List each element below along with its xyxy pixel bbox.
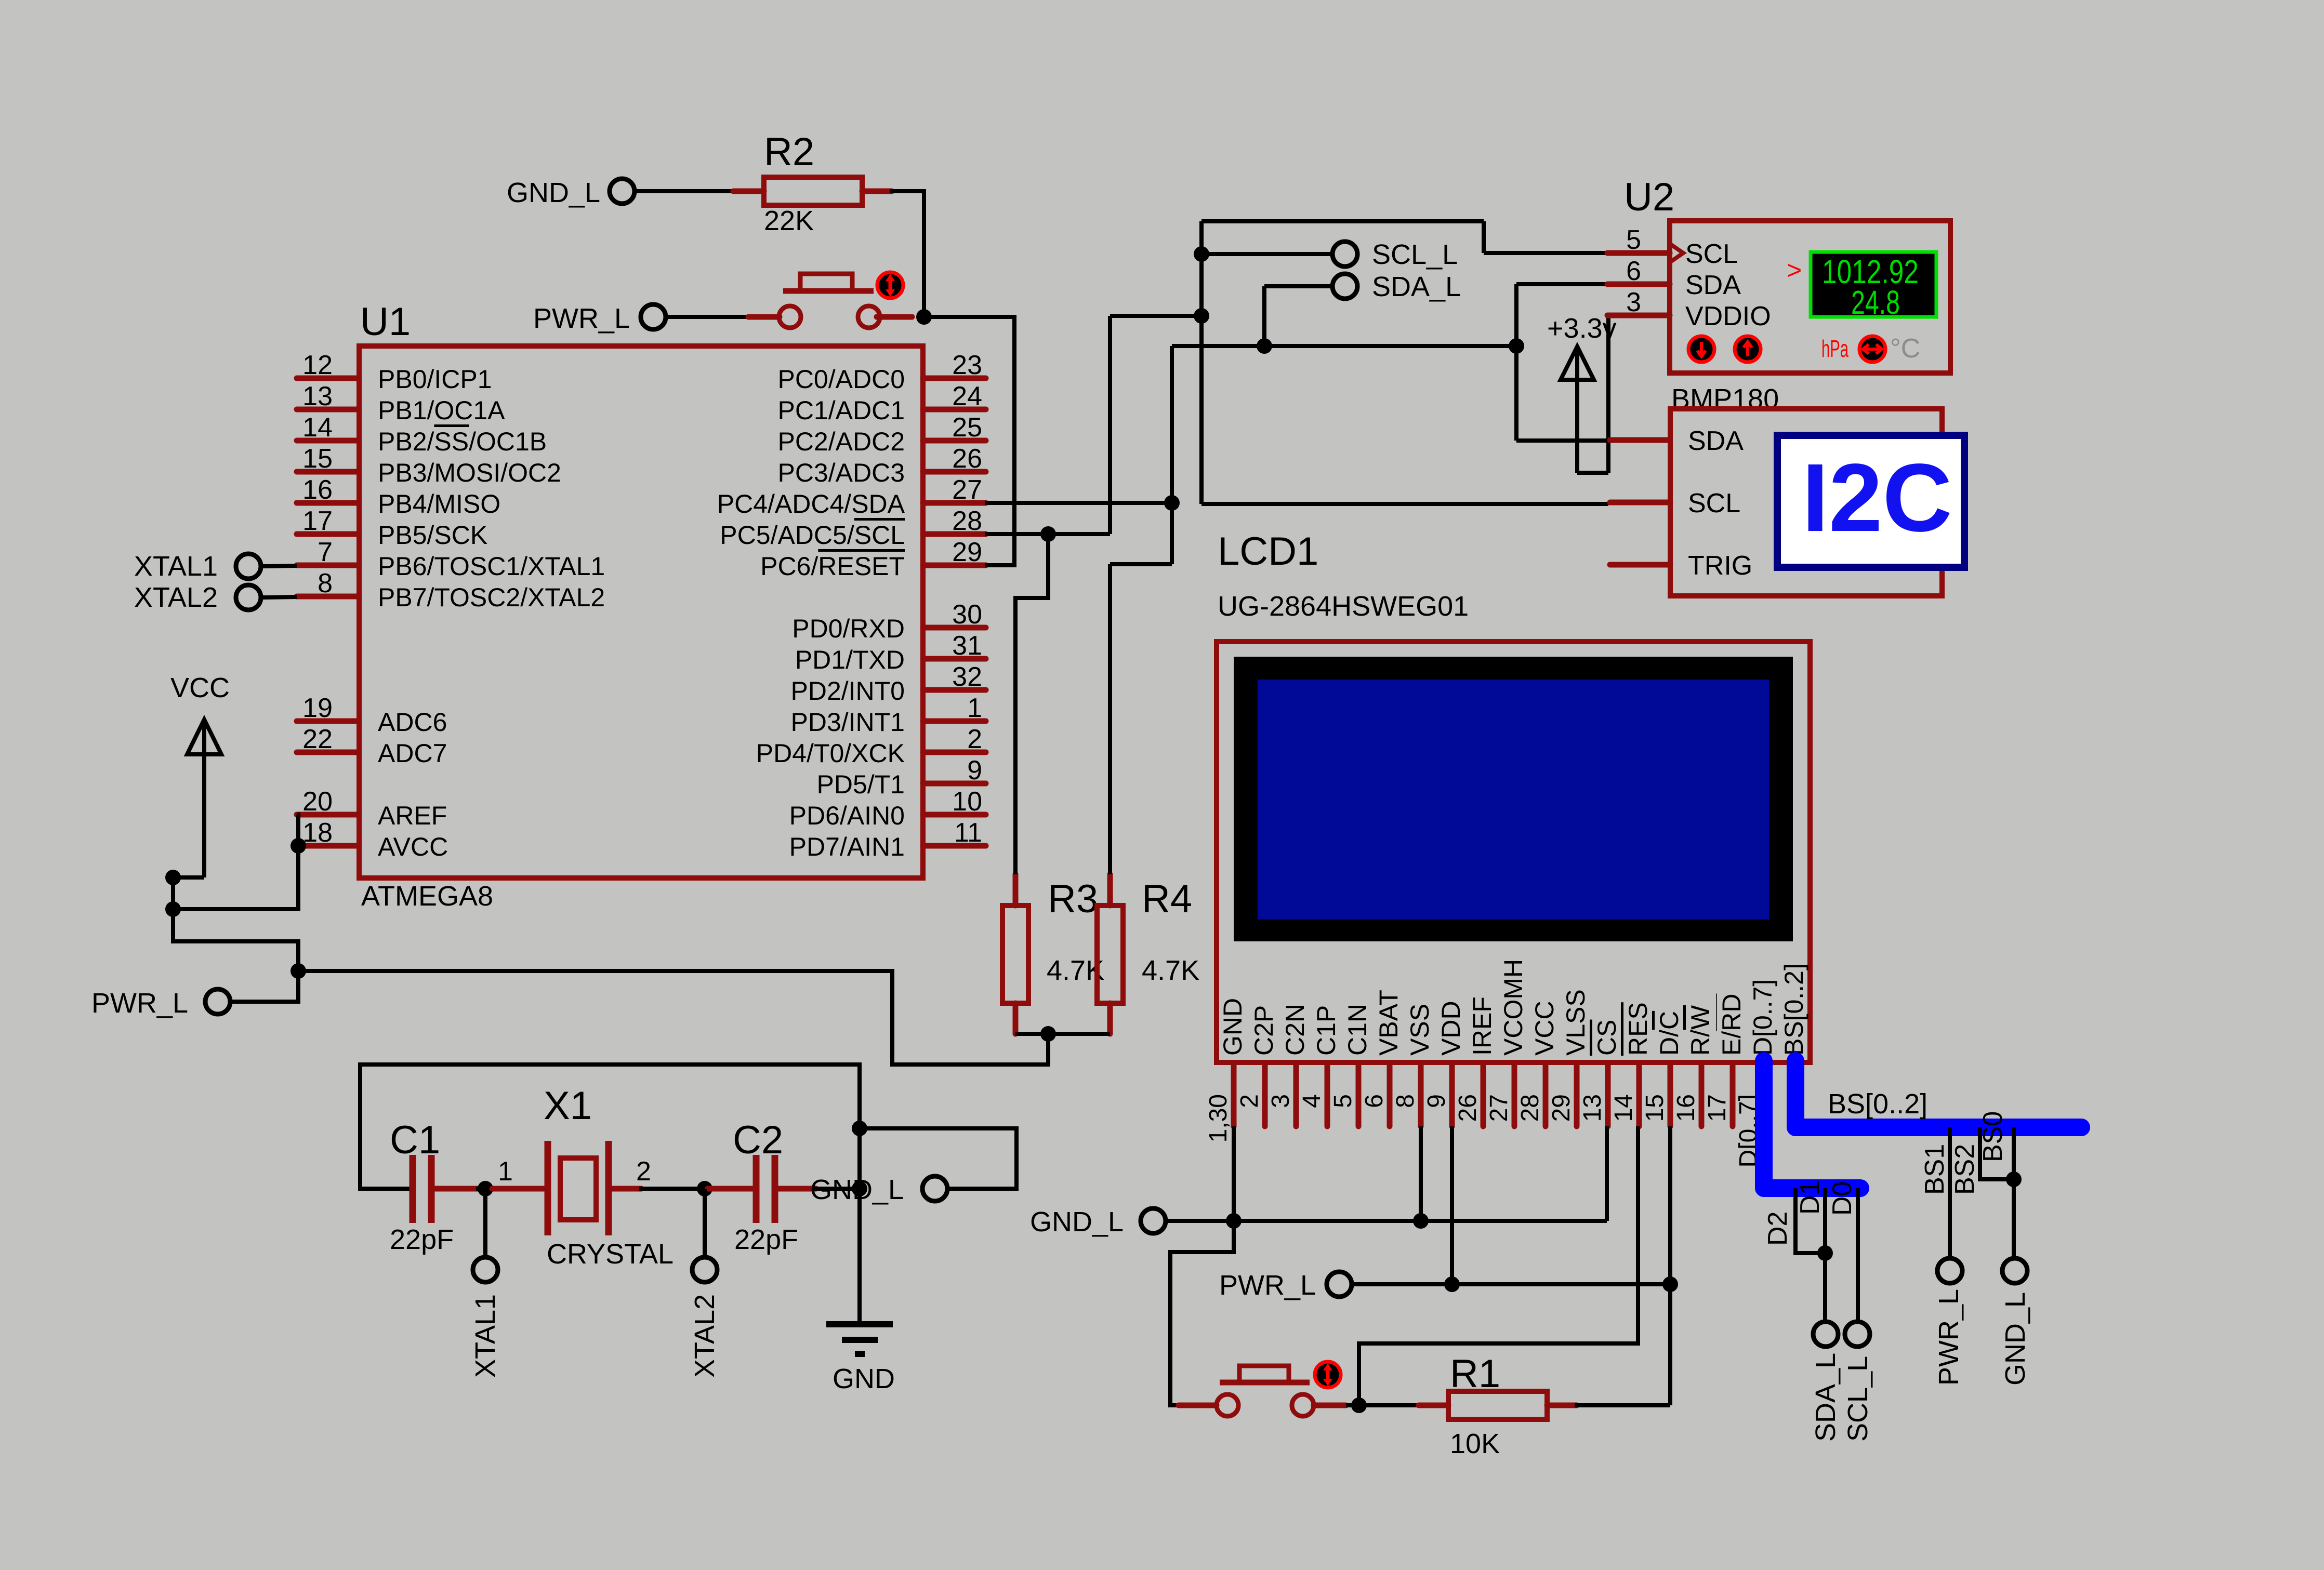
svg-text:2: 2: [967, 724, 982, 754]
svg-text:PB6/TOSC1/XTAL1: PB6/TOSC1/XTAL1: [378, 552, 605, 581]
wire to AREF/AVCC: [173, 815, 298, 909]
LCD1 screen: [1258, 680, 1769, 920]
LCD1 pin 9 stub: [1449, 1064, 1455, 1126]
wire C1 gnd loop: [360, 1065, 860, 1189]
U2 pin 5 stub: [1607, 250, 1670, 256]
terminal SCL_L bottom: [1845, 1322, 1870, 1347]
wire XTAL1 to pin7: [262, 566, 297, 566]
terminal GND_L bottom: [2002, 1258, 2027, 1283]
U1 pin 31 stub: [923, 656, 986, 662]
svg-text:I2C: I2C: [1802, 444, 1952, 552]
svg-text:GND_L: GND_L: [1030, 1206, 1124, 1238]
wire down ladder: [173, 877, 298, 971]
svg-text:PB2/SS/OC1B: PB2/SS/OC1B: [378, 427, 547, 456]
U2 button unit toggle: [1859, 336, 1885, 362]
wire D1 tap: [1823, 1188, 1827, 1321]
U1 pin 29 stub: [923, 563, 986, 568]
svg-text:6: 6: [1361, 1094, 1388, 1108]
svg-text:XTAL2: XTAL2: [689, 1294, 720, 1378]
svg-text:PC2/ADC2: PC2/ADC2: [777, 427, 905, 456]
LCD1 pin 28 stub: [1543, 1064, 1549, 1126]
svg-text:°C: °C: [1890, 334, 1920, 364]
wire XTAL2 drop: [703, 1189, 707, 1257]
svg-text:PB7/TOSC2/XTAL2: PB7/TOSC2/XTAL2: [378, 583, 605, 612]
svg-text:3: 3: [1267, 1094, 1295, 1108]
LCD1 pin 8 stub: [1418, 1064, 1424, 1126]
svg-text:PD1/TXD: PD1/TXD: [795, 645, 905, 674]
junction XTAL2 node: [697, 1181, 712, 1196]
svg-text:AREF: AREF: [378, 801, 447, 830]
svg-text:4.7K: 4.7K: [1142, 955, 1199, 986]
resistor R1: [1419, 1403, 1448, 1408]
svg-text:1: 1: [498, 1156, 513, 1187]
wire BS0 tap: [2012, 1127, 2016, 1258]
sensor interface box: [1670, 409, 1942, 596]
svg-text:PWR_L: PWR_L: [533, 303, 630, 334]
svg-text:28: 28: [1516, 1094, 1544, 1122]
U1 pin 16 stub: [297, 500, 359, 506]
svg-text:PD4/T0/XCK: PD4/T0/XCK: [756, 739, 905, 768]
wire VCC corner: [173, 875, 204, 880]
U1 pin 17 stub: [297, 531, 359, 537]
svg-text:VCC: VCC: [1530, 1001, 1559, 1056]
svg-text:R/W: R/W: [1686, 1005, 1715, 1056]
svg-text:D[0..7]: D[0..7]: [1748, 979, 1777, 1056]
wire X1 to C2: [639, 1187, 707, 1191]
resistor R4: [1107, 874, 1113, 906]
U2 pin 3 stub: [1607, 313, 1670, 318]
svg-text:12: 12: [302, 350, 333, 380]
wire PWR rail to R3/R4: [298, 971, 1048, 1065]
svg-text:17: 17: [1704, 1094, 1731, 1122]
svg-text:15: 15: [302, 444, 333, 474]
U1 pin 9 stub: [923, 781, 986, 787]
svg-text:29: 29: [1548, 1094, 1575, 1122]
svg-text:GND_L: GND_L: [507, 177, 600, 208]
LCD1 pin 14 stub: [1636, 1064, 1642, 1126]
svg-text:5: 5: [1329, 1094, 1357, 1108]
svg-text:22K: 22K: [764, 205, 814, 236]
svg-text:22pF: 22pF: [390, 1224, 454, 1255]
U1 pin 24 stub: [923, 407, 986, 413]
svg-text:LCD1: LCD1: [1218, 529, 1318, 574]
svg-text:PD7/AIN1: PD7/AIN1: [789, 832, 905, 861]
svg-text:25: 25: [952, 413, 982, 443]
svg-text:4: 4: [1298, 1094, 1326, 1108]
svg-text:hPa: hPa: [1821, 335, 1848, 362]
svg-text:2: 2: [636, 1156, 651, 1187]
wire LCD power net: [1352, 1126, 1670, 1405]
U1 pin 15 stub: [297, 469, 359, 475]
svg-text:VCC: VCC: [170, 672, 230, 703]
U1 pin 11 stub: [923, 843, 986, 849]
svg-text:1: 1: [967, 693, 982, 723]
push button SW2: [1179, 1403, 1217, 1408]
wire R3 R4 bottom: [1015, 1032, 1110, 1036]
svg-text:BS[0..2]: BS[0..2]: [1779, 963, 1808, 1056]
U1 pin 27 stub: [923, 500, 986, 506]
svg-text:D/C: D/C: [1655, 1011, 1684, 1056]
svg-text:SDA: SDA: [1685, 270, 1741, 300]
LCD1 pin 17 stub: [1730, 1064, 1736, 1126]
terminal PWR_L left: [205, 989, 230, 1014]
svg-text:28: 28: [952, 506, 982, 536]
svg-text:PD5/T1: PD5/T1: [816, 770, 905, 799]
svg-text:PWR_L: PWR_L: [1219, 1270, 1316, 1301]
svg-text:17: 17: [302, 506, 333, 536]
svg-text:PB4/MISO: PB4/MISO: [378, 489, 500, 518]
U1 pin 23 stub: [923, 376, 986, 381]
svg-text:PC0/ADC0: PC0/ADC0: [777, 365, 905, 394]
wire VDDIO riser: [1606, 315, 1610, 473]
junction PWR ladder: [290, 963, 306, 979]
svg-text:16: 16: [302, 475, 333, 505]
bus D[0..7]: [1764, 1061, 1860, 1188]
svg-text:7: 7: [318, 537, 333, 567]
ground symbol GND: [826, 1321, 893, 1327]
svg-text:D1: D1: [1795, 1180, 1825, 1215]
crystal X1: [545, 1141, 551, 1235]
svg-text:9: 9: [1423, 1094, 1450, 1108]
svg-text:C1P: C1P: [1312, 1005, 1341, 1056]
svg-text:27: 27: [1485, 1094, 1513, 1122]
svg-text:PC6/RESET: PC6/RESET: [760, 552, 905, 581]
svg-text:SCL: SCL: [1685, 239, 1738, 269]
svg-text:X1: X1: [544, 1084, 592, 1128]
svg-text:VDD: VDD: [1436, 1001, 1465, 1056]
svg-text:16: 16: [1672, 1094, 1700, 1122]
SW1 actuator icon: [877, 272, 903, 298]
wire RES to R1: [1359, 1126, 1638, 1405]
svg-text:ADC6: ADC6: [378, 708, 447, 737]
terminal XTAL1: [236, 554, 261, 579]
U1 pin 2 stub: [923, 750, 986, 755]
junction SW2/R1: [1351, 1398, 1367, 1413]
svg-text:13: 13: [302, 381, 333, 411]
svg-text:SDA_L: SDA_L: [1372, 271, 1461, 302]
svg-text:C1N: C1N: [1343, 1004, 1372, 1056]
svg-text:PC5/ADC5/SCL: PC5/ADC5/SCL: [720, 521, 905, 550]
LCD1 pin 15 stub: [1668, 1064, 1673, 1126]
U1 pin 28 stub: [923, 531, 986, 537]
LCD1 pin 2 stub: [1262, 1064, 1268, 1126]
terminal XTAL2: [236, 585, 261, 610]
interface pin SCL stub: [1610, 500, 1670, 505]
terminal PWR_L top: [641, 304, 666, 329]
svg-text:TRIG: TRIG: [1688, 551, 1752, 581]
svg-text:BS1: BS1: [1920, 1144, 1950, 1195]
wire R2 to button junction: [890, 191, 924, 317]
LCD1 pin 6 stub: [1387, 1064, 1393, 1126]
microcontroller U1 body: [359, 346, 923, 878]
svg-text:19: 19: [302, 693, 333, 723]
svg-text:10: 10: [952, 787, 982, 817]
wire to PWR_L: [231, 971, 298, 1002]
capacitor C2: [753, 1155, 760, 1223]
wire XTAL1 drop: [483, 1189, 487, 1257]
U1 pin 7 stub: [297, 563, 359, 568]
wire BS2 tap: [1980, 1127, 2014, 1179]
U1 pin 30 stub: [923, 625, 986, 631]
svg-text:VLSS: VLSS: [1561, 989, 1590, 1056]
wire R3 top: [1015, 534, 1048, 874]
U1 pin 10 stub: [923, 812, 986, 818]
svg-text:PD0/RXD: PD0/RXD: [792, 614, 905, 643]
svg-text:ATMEGA8: ATMEGA8: [361, 881, 493, 912]
svg-text:>: >: [1787, 256, 1802, 285]
svg-text:10K: 10K: [1450, 1428, 1500, 1459]
svg-text:R4: R4: [1142, 877, 1192, 921]
terminal GND_L top: [610, 179, 635, 204]
svg-text:PB3/MOSI/OC2: PB3/MOSI/OC2: [378, 458, 561, 487]
wire BS1 tap: [1948, 1127, 1952, 1258]
svg-text:PC3/ADC3: PC3/ADC3: [777, 458, 905, 487]
terminal GND_L middle: [922, 1176, 947, 1201]
svg-text:XTAL1: XTAL1: [470, 1294, 501, 1378]
U1 pin 19 stub: [297, 719, 359, 724]
svg-text:8: 8: [318, 568, 333, 598]
interface pin SDA stub: [1610, 437, 1670, 443]
svg-text:C2N: C2N: [1280, 1004, 1310, 1056]
wire C1 to X1: [476, 1187, 540, 1191]
resistor R3: [1013, 874, 1019, 906]
svg-text:GND_L: GND_L: [2000, 1292, 2031, 1386]
wire GND_L to R2: [635, 189, 735, 193]
svg-text:VDDIO: VDDIO: [1685, 301, 1771, 331]
display LCD1 body: [1217, 642, 1810, 1062]
svg-text:24: 24: [952, 381, 982, 411]
svg-text:R2: R2: [764, 130, 814, 174]
LCD1 pin 5 stub: [1356, 1064, 1362, 1126]
svg-text:PC4/ADC4/SDA: PC4/ADC4/SDA: [717, 489, 905, 518]
svg-text:XTAL2: XTAL2: [134, 582, 218, 613]
svg-text:15: 15: [1641, 1094, 1669, 1122]
SW2 actuator icon: [1315, 1362, 1341, 1388]
svg-text:PD6/AIN0: PD6/AIN0: [789, 801, 905, 830]
svg-text:BS0: BS0: [1978, 1111, 2008, 1162]
U1 pin 1 stub: [923, 719, 986, 724]
U1 pin 14 stub: [297, 438, 359, 444]
svg-text:PB0/ICP1: PB0/ICP1: [378, 365, 492, 394]
svg-text:30: 30: [952, 600, 982, 630]
capacitor C1: [410, 1155, 416, 1223]
wire LCD ground net: [1166, 1126, 1607, 1221]
terminal PWR_L bottom: [1937, 1258, 1962, 1283]
svg-text:14: 14: [1610, 1094, 1638, 1122]
terminal SDA_L: [1332, 274, 1357, 299]
wire C2 to GND line: [814, 1187, 860, 1191]
svg-text:3: 3: [1626, 287, 1641, 317]
terminal SCL_L: [1332, 242, 1357, 267]
U2 button up: [1735, 336, 1761, 362]
svg-text:14: 14: [302, 413, 333, 443]
svg-text:SCL_L: SCL_L: [1372, 239, 1458, 270]
svg-text:24.8: 24.8: [1851, 284, 1900, 321]
svg-text:ADC7: ADC7: [378, 739, 447, 768]
bus BS[0..2]: [1795, 1061, 2081, 1127]
svg-text:11: 11: [954, 818, 982, 848]
svg-text:U2: U2: [1624, 175, 1674, 219]
svg-text:32: 32: [952, 662, 982, 692]
LCD1 screen bezel: [1234, 657, 1793, 941]
LCD1 pin 26 stub: [1481, 1064, 1486, 1126]
svg-text:23: 23: [952, 350, 982, 380]
svg-text:BS2: BS2: [1950, 1144, 1980, 1195]
svg-text:13: 13: [1579, 1094, 1606, 1122]
svg-text:GND: GND: [1218, 998, 1247, 1056]
svg-text:SCL: SCL: [1688, 488, 1740, 518]
svg-text:PD2/INT0: PD2/INT0: [790, 676, 905, 706]
svg-text:GND: GND: [833, 1363, 895, 1394]
LCD1 pin 1,30 stub: [1231, 1064, 1237, 1126]
wire button to PC6/RESET: [924, 317, 1014, 565]
svg-text:SCL_L: SCL_L: [1842, 1356, 1873, 1442]
svg-text:RES: RES: [1623, 1002, 1653, 1056]
junction SW1/R2: [916, 309, 932, 325]
wire SCL net: [985, 221, 1608, 534]
svg-text:PWR_L: PWR_L: [1933, 1289, 1964, 1386]
svg-text:U1: U1: [360, 300, 411, 344]
svg-text:PB1/OC1A: PB1/OC1A: [378, 396, 505, 425]
LCD1 pin 4 stub: [1325, 1064, 1330, 1126]
wire XTAL2 to pin8: [262, 597, 297, 597]
svg-text:E/RD: E/RD: [1717, 994, 1746, 1056]
svg-text:2: 2: [1236, 1094, 1263, 1108]
svg-text:PB5/SCK: PB5/SCK: [378, 521, 487, 550]
wire R1 right: [1575, 1403, 1670, 1407]
wire gnd to SW2: [1170, 1221, 1234, 1405]
U1 pin 8 stub: [297, 594, 359, 600]
svg-text:27: 27: [952, 475, 982, 505]
U1 pin 32 stub: [923, 687, 986, 693]
U1 pin 12 stub: [297, 376, 359, 381]
U2 pin 6 stub: [1607, 282, 1670, 287]
LCD1 pin 3 stub: [1293, 1064, 1299, 1126]
terminal SDA_L bottom: [1813, 1322, 1838, 1347]
svg-text:20: 20: [302, 787, 333, 817]
interface pin TRIG stub: [1610, 562, 1670, 568]
U1 pin 22 stub: [297, 750, 359, 755]
U1 pin 18 stub: [297, 843, 359, 849]
svg-text:PD3/INT1: PD3/INT1: [790, 708, 905, 737]
svg-text:PC1/ADC1: PC1/ADC1: [777, 396, 905, 425]
svg-text:CS: CS: [1592, 1020, 1621, 1056]
svg-text:VCOMH: VCOMH: [1499, 959, 1528, 1056]
svg-text:6: 6: [1626, 256, 1641, 286]
svg-text:BS[0..2]: BS[0..2]: [1828, 1088, 1927, 1120]
svg-text:XTAL1: XTAL1: [134, 551, 218, 582]
LCD1 pin 27 stub: [1512, 1064, 1517, 1126]
U2 SCL input arrow: [1670, 244, 1683, 262]
U1 pin 26 stub: [923, 469, 986, 475]
wire SDA net: [985, 284, 1610, 874]
push button SW1: [748, 314, 780, 320]
svg-text:C2: C2: [733, 1118, 783, 1162]
svg-text:C1: C1: [390, 1118, 440, 1162]
svg-text:IREF: IREF: [1468, 996, 1497, 1056]
svg-text:R3: R3: [1048, 877, 1098, 921]
svg-text:1,30: 1,30: [1205, 1094, 1232, 1142]
junction XTAL1 node: [478, 1181, 493, 1196]
LCD1 pin 29 stub: [1574, 1064, 1580, 1126]
svg-text:29: 29: [952, 537, 982, 567]
svg-text:31: 31: [952, 631, 982, 661]
svg-text:SDA_L: SDA_L: [1810, 1353, 1841, 1442]
svg-text:5: 5: [1626, 225, 1641, 255]
svg-text:VBAT: VBAT: [1374, 990, 1403, 1056]
terminal GND_L (LCD): [1141, 1208, 1166, 1233]
svg-text:9: 9: [967, 755, 982, 786]
terminal PWR_L (LCD): [1327, 1272, 1352, 1297]
U1 pin 25 stub: [923, 438, 986, 444]
wire SW2 to R1: [1346, 1403, 1421, 1407]
svg-text:PWR_L: PWR_L: [91, 988, 188, 1019]
svg-text:R1: R1: [1450, 1352, 1500, 1396]
sensor U2 body: [1670, 221, 1950, 373]
svg-text:22: 22: [302, 724, 333, 754]
svg-text:8: 8: [1392, 1094, 1419, 1108]
terminal XTAL2 bottom: [692, 1257, 717, 1282]
svg-text:26: 26: [1454, 1094, 1482, 1122]
U2 button down: [1688, 336, 1714, 362]
svg-text:22pF: 22pF: [734, 1224, 798, 1255]
svg-text:UG-2864HSWEG01: UG-2864HSWEG01: [1218, 591, 1469, 622]
wire GND_L loop: [860, 1128, 1016, 1189]
svg-text:26: 26: [952, 444, 982, 474]
svg-text:D2: D2: [1763, 1212, 1793, 1246]
wire GND vertical: [857, 1128, 862, 1321]
svg-text:SDA: SDA: [1688, 426, 1744, 456]
LCD1 pin 16 stub: [1699, 1064, 1705, 1126]
terminal XTAL1 bottom: [473, 1257, 498, 1282]
svg-text:VSS: VSS: [1405, 1004, 1434, 1056]
svg-text:C2P: C2P: [1249, 1005, 1278, 1056]
svg-text:AVCC: AVCC: [378, 832, 448, 861]
wire D2 tap: [1795, 1188, 1825, 1253]
svg-text:D0: D0: [1827, 1181, 1857, 1216]
resistor R2: [733, 189, 764, 194]
U1 pin 13 stub: [297, 407, 359, 413]
U1 pin 20 stub: [297, 812, 359, 818]
svg-text:CRYSTAL: CRYSTAL: [547, 1239, 674, 1270]
svg-text:18: 18: [302, 818, 333, 848]
I2C logo: [1777, 435, 1964, 567]
wire D0 tap: [1856, 1188, 1860, 1321]
LCD1 pin 13 stub: [1605, 1064, 1611, 1126]
U2 display window: [1811, 252, 1936, 317]
wire PWR_L to button SW1: [666, 315, 756, 319]
